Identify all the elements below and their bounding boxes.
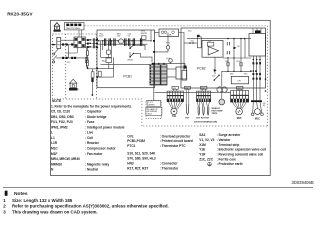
- wire cluster outputs to PCB1: [85, 40, 97, 47]
- svg-text:M1C: M1C: [51, 147, 58, 151]
- connector comb S20: [167, 86, 183, 101]
- svg-text:: Neutral: : Neutral: [85, 168, 98, 172]
- op-amp triangle: [208, 47, 218, 55]
- terminal note box 2: [146, 107, 162, 115]
- wire op-amp bottom rail: [223, 57, 251, 59]
- svg-text:HN3: HN3: [127, 162, 134, 166]
- inner dashed border left: [52, 34, 54, 99]
- wire PCB2 internal: [184, 42, 197, 44]
- svg-text:RECTIFYING: RECTIFYING: [67, 28, 81, 30]
- svg-text:: Protective earth: : Protective earth: [217, 162, 243, 166]
- outer solid frame: [51, 20, 271, 175]
- connector comb S90: [197, 86, 211, 101]
- svg-text:RK20-35GV: RK20-35GV: [7, 11, 32, 16]
- svg-text:21D: 21D: [212, 75, 216, 77]
- bottom separator line: [3, 187, 313, 189]
- rectifying label black squares: [66, 24, 81, 27]
- legend column 2: [127, 134, 193, 170]
- svg-text:WIRED: WIRED: [148, 105, 155, 107]
- house icon outdoor label: [54, 30, 61, 32]
- svg-text:DB1, DB2, DB3: DB1, DB2, DB3: [51, 115, 74, 119]
- svg-text:SA1: SA1: [199, 133, 205, 137]
- diode D1: [233, 46, 236, 49]
- svg-text:HL3: HL3: [244, 74, 247, 76]
- relay aux black box: [184, 66, 187, 69]
- svg-text:PCB1: PCB1: [123, 75, 132, 79]
- connector squares on IPM wires: [252, 62, 261, 64]
- svg-text:IPM1, IPM2: IPM1, IPM2: [51, 125, 68, 129]
- phase line element pairs: [252, 73, 261, 80]
- svg-text:Refer to purchasing specificat: Refer to purchasing specification AS(Y)3…: [12, 204, 169, 209]
- inner dashed border bottom right run: [142, 125, 267, 127]
- svg-text:: Overload protector: : Overload protector: [160, 134, 191, 138]
- svg-text:V1, V2, V3: V1, V2, V3: [199, 138, 214, 142]
- svg-text:: Varistor: : Varistor: [217, 138, 232, 142]
- cluster drop: [66, 48, 77, 53]
- svg-text:WHITE: WHITE: [141, 33, 148, 35]
- svg-text:Z10: Z10: [237, 46, 240, 48]
- svg-text:S70, S80, S90, HL3: S70, S80, S90, HL3: [127, 156, 156, 160]
- reactor L1R box: [159, 29, 179, 37]
- wire vertical riser a: [233, 39, 235, 46]
- svg-text:ONLY: ONLY: [147, 114, 153, 116]
- reactor L1R coil circles: [161, 31, 174, 34]
- svg-text:S10: S10: [188, 31, 191, 33]
- svg-text:: Thermistor PTC: : Thermistor PTC: [160, 144, 187, 148]
- main bus inside PCB1: [97, 40, 150, 42]
- capacitor C53: [227, 51, 229, 54]
- svg-text:250V: 250V: [99, 35, 104, 37]
- wire drops to low rail: [228, 58, 241, 71]
- varistor V1: [87, 51, 89, 56]
- protective earth symbol: [208, 162, 212, 166]
- thermistor R3T loop: [203, 107, 205, 115]
- svg-text:R1T R2T R3T: R1T R2T R3T: [196, 117, 210, 119]
- power inlet dashed box top: [53, 33, 97, 35]
- terminal note box 1: [147, 101, 161, 107]
- thermistor R2T loop: [198, 107, 200, 115]
- transformer T1 windings: [150, 65, 167, 85]
- svg-text:(5.0): (5.0): [166, 58, 170, 60]
- small components above rail: [227, 63, 229, 66]
- cluster dark cells: [75, 38, 85, 47]
- svg-text:: Diode bridge: : Diode bridge: [85, 115, 107, 119]
- svg-text:1. Refer to the nameplate for: 1. Refer to the nameplate for the power …: [51, 104, 132, 108]
- cluster dividers: [78, 37, 82, 48]
- wire rectifier feed b: [81, 30, 83, 37]
- svg-text:OUTDOOR: OUTDOOR: [70, 89, 80, 91]
- svg-text:: Printed circuit board: : Printed circuit board: [160, 139, 193, 143]
- house icon indoor lower: [70, 79, 77, 88]
- svg-text:S80: S80: [230, 74, 233, 76]
- svg-text:(OUTDOOR): (OUTDOOR): [194, 122, 207, 124]
- svg-text:: Terminal strip: : Terminal strip: [217, 143, 240, 147]
- svg-text:Size: Length 132 x Width 185: Size: Length 132 x Width 185: [12, 198, 73, 203]
- ferrite blobs switched row: [62, 57, 76, 59]
- thermal switch diagonal: [214, 75, 219, 80]
- svg-text:3D039406B: 3D039406B: [292, 180, 314, 185]
- svg-text:NOTE: NOTE: [52, 99, 62, 103]
- svg-text:: Magnetic relay: : Magnetic relay: [85, 162, 109, 166]
- svg-text:: Ferrite core: : Ferrite core: [217, 157, 237, 161]
- switch contact lower: [54, 55, 57, 61]
- svg-text:FU1, FU2, FU3: FU1, FU2, FU3: [51, 120, 73, 124]
- house icon indoor label: [69, 88, 77, 91]
- svg-text:: Live: : Live: [85, 131, 94, 135]
- wire transformer to relay: [167, 68, 176, 70]
- svg-text:MRM10: MRM10: [51, 162, 62, 166]
- svg-text:Y1E: Y1E: [199, 148, 205, 152]
- fuse element lower: [86, 60, 88, 66]
- power inlet arrow: [52, 44, 56, 46]
- wire vertical riser b: [240, 39, 242, 58]
- PCB1 edge terminal squares: [96, 38, 98, 78]
- svg-text:S70: S70: [237, 88, 240, 90]
- wire frame to arrow: [51, 44, 53, 46]
- capacitor bars across rows: [94, 38, 95, 48]
- svg-text:L: L: [51, 131, 53, 135]
- wire C column: [91, 69, 93, 95]
- small circle below: [219, 99, 225, 105]
- svg-text:: Thermistor: : Thermistor: [160, 166, 179, 170]
- wires comb to fan motor: [232, 102, 247, 109]
- output terminal squares: [87, 39, 91, 48]
- svg-text:: Surge arrester: : Surge arrester: [217, 133, 241, 137]
- bus junction dots: [98, 40, 152, 41]
- capacitor C110 box: [142, 36, 147, 40]
- PCB1 board outline: [97, 30, 155, 88]
- wire transformer to indoor terminal box: [153, 85, 155, 101]
- svg-text:R20: R20: [225, 61, 228, 63]
- svg-text:: Fan motor: : Fan motor: [85, 152, 103, 156]
- wire varistor column: [86, 47, 88, 69]
- svg-text:Y1R: Y1R: [199, 153, 206, 157]
- earth terminal circle upper: [53, 53, 55, 55]
- capacitor C7 box left PCB2: [182, 70, 187, 80]
- wire bar to motor: [253, 102, 262, 113]
- IPM internal rails: [253, 28, 261, 34]
- wire live row: [61, 44, 74, 46]
- power inlet dashed box right: [96, 34, 98, 99]
- wire tie vertical: [68, 45, 70, 58]
- svg-text:C5, C8, C110: C5, C8, C110: [51, 110, 70, 114]
- node dots IPM lower: [253, 59, 261, 60]
- PCB1 edge entry squares: [96, 39, 98, 48]
- connector CN2 wide box: [231, 76, 248, 83]
- relay coil MR4 box: [176, 67, 187, 79]
- transformer terminal dots: [152, 63, 154, 65]
- wire vertical riser c: [244, 39, 246, 58]
- house icon outdoor: [54, 23, 60, 30]
- wire PCB2 bottom rail to combs: [155, 91, 232, 93]
- svg-text:S90: S90: [201, 88, 204, 90]
- compressor motor M1C circle: [255, 109, 261, 115]
- thermistor R1T loop: [186, 104, 189, 115]
- node dots CN2 rail: [250, 70, 257, 72]
- svg-text:M1C: M1C: [255, 117, 260, 120]
- svg-text:PCB2: PCB2: [197, 67, 206, 71]
- svg-text:L1R: L1R: [51, 141, 58, 145]
- svg-text:X1M: X1M: [199, 143, 206, 147]
- ferrite blobs live row: [62, 43, 73, 45]
- svg-text:S40: S40: [185, 88, 188, 90]
- svg-text:This drawing was drawn on CAD: This drawing was drawn on CAD system.: [12, 209, 98, 214]
- svg-text:S20: S20: [173, 88, 176, 90]
- svg-text:M1F: M1F: [237, 117, 242, 120]
- terminal bar compressor: [251, 100, 262, 102]
- inner dashed border step vertical: [141, 99, 143, 126]
- svg-text:M1F: M1F: [51, 152, 57, 156]
- svg-text:Y1E: Y1E: [172, 115, 177, 118]
- wire op-amp top rail: [187, 38, 251, 40]
- wires comb S90 to thermistors: [198, 102, 210, 107]
- crystal component box: [107, 50, 111, 54]
- relay contact MRM10: [130, 53, 134, 57]
- capacitor C8 box: [91, 72, 94, 78]
- wire rectifier feed a: [78, 30, 80, 37]
- legend column 1: [51, 110, 125, 172]
- inner dashed border top: [85, 25, 268, 27]
- thermistor R4T loop: [207, 107, 209, 115]
- noise filter cluster box: [74, 37, 85, 48]
- relay contact terminals: [129, 56, 130, 57]
- svg-text:: Reactor: : Reactor: [85, 141, 100, 145]
- fuse FU2 circle: [166, 46, 170, 50]
- svg-text:MR30: MR30: [128, 59, 134, 61]
- svg-text:OVL: OVL: [127, 134, 134, 138]
- power inlet dashed divider: [65, 34, 67, 99]
- wire switched row: [56, 57, 86, 59]
- svg-text:: Fuse: : Fuse: [85, 120, 95, 124]
- inner dashed border right: [266, 26, 268, 126]
- varistor V1 column: [86, 47, 88, 67]
- svg-text:PTC1: PTC1: [127, 144, 135, 148]
- svg-text:R1T, R2T, R3T: R1T, R2T, R3T: [127, 166, 148, 170]
- rectifying label box: [65, 23, 85, 30]
- wire neutral row: [61, 39, 74, 41]
- fan motor M1F circle: [236, 108, 243, 115]
- fuse FU3 circle: [169, 59, 173, 63]
- electrolytic capacitor pair circles: [217, 87, 222, 92]
- surge arrester SA1 box: [106, 58, 112, 63]
- svg-text:MR4, MRCW, MR30: MR4, MRCW, MR30: [51, 157, 80, 161]
- PCB2 board outline: [181, 28, 266, 88]
- svg-text:: Reversing solenoid valve coi: : Reversing solenoid valve coil: [217, 153, 264, 157]
- capacitor C5 dark blob: [91, 78, 93, 82]
- svg-text:S10, S11, S20, S40: S10, S11, S20, S40: [127, 152, 155, 156]
- wire bus risers in PCB1: [102, 41, 104, 50]
- varistor body: [85, 58, 88, 63]
- X1M internal ticks: [57, 41, 61, 45]
- svg-text:: Electronic expansion valve c: : Electronic expansion valve coil: [217, 148, 266, 152]
- expansion valve coil Y1E circle: [171, 108, 177, 114]
- inner dashed border bottom left run: [53, 98, 142, 100]
- X1M terminal strip block: [57, 37, 61, 48]
- IPM1 module box: [249, 34, 266, 57]
- wires comb to Y1E: [168, 102, 183, 110]
- svg-text:: Capacitor: : Capacitor: [85, 110, 102, 114]
- wire PCB1 to relay over transformer: [155, 64, 185, 66]
- wire IPM outputs: [253, 56, 260, 100]
- svg-text:Z2C: Z2C: [67, 62, 71, 64]
- op-amp box: [202, 41, 223, 58]
- PCB2 input rect: [197, 37, 201, 48]
- wires S40 down: [186, 89, 189, 104]
- svg-text:PCB1,PCB2: PCB1,PCB2: [127, 139, 145, 143]
- svg-text:L1: L1: [51, 136, 55, 140]
- wire PCB1 to fuse FU2: [154, 33, 168, 52]
- IPM1 label box: [255, 30, 261, 33]
- capacitor C52: [227, 42, 229, 45]
- earth terminal circle lower: [53, 61, 55, 63]
- svg-text:: Intelligent power module: : Intelligent power module: [85, 125, 125, 129]
- dashed indoor terminal box: [146, 101, 162, 119]
- connector S40 small: [185, 86, 191, 89]
- fan connector comb S70: [231, 86, 249, 102]
- capacitor ticks on bus: [104, 38, 141, 46]
- wire mid horizontals PCB1: [87, 68, 96, 70]
- wire rail to CN2: [222, 70, 251, 72]
- svg-text:Z1C, Z2C: Z1C, Z2C: [199, 157, 214, 161]
- svg-text:V2: V2: [128, 35, 130, 37]
- svg-text:: Coil: : Coil: [85, 136, 93, 140]
- svg-text:(5.0): (5.0): [236, 61, 240, 63]
- wire op-amp output drop: [214, 57, 216, 74]
- svg-text:(E): (E): [263, 105, 266, 107]
- wire electrolytic column: [221, 71, 223, 87]
- svg-text:: Compressor motor: : Compressor motor: [85, 147, 116, 151]
- svg-text:TRIPS: TRIPS: [212, 113, 219, 115]
- node dots PCB2: [189, 42, 191, 44]
- svg-text:: Connector: : Connector: [160, 162, 179, 166]
- wire PCB1 to reactor: [155, 32, 160, 34]
- wire reactor to PCB2: [179, 33, 185, 71]
- legend column 3: [199, 133, 266, 166]
- relay contact MRM20: [130, 45, 134, 49]
- notes header tab: [5, 191, 8, 196]
- svg-text:(INDOOR): (INDOOR): [207, 122, 217, 124]
- switch contact to earth: [55, 48, 58, 53]
- svg-text:S11: S11: [191, 41, 194, 43]
- thermistor PTC1 circle on bus: [119, 39, 124, 44]
- svg-text:Notes: Notes: [14, 191, 28, 197]
